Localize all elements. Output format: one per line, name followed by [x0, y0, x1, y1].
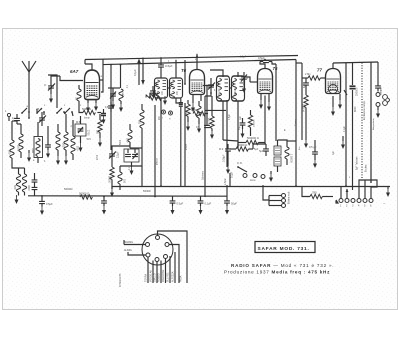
resistor R8 grid — [302, 73, 326, 80]
switch S1b — [36, 108, 45, 114]
trimmer C9 — [208, 78, 215, 94]
caption line 1 — [231, 263, 334, 268]
label w10 — [254, 148, 259, 151]
label w9 — [235, 88, 237, 95]
label w3 — [87, 138, 92, 141]
resistor R2 — [149, 96, 161, 100]
capacitor C23 el — [179, 98, 183, 186]
IF transformer T1a — [155, 78, 168, 98]
wire RC links — [223, 139, 287, 149]
resistor R7 50000 — [79, 192, 92, 200]
coil L1 — [8, 121, 15, 165]
capacitor C12 R2 — [219, 144, 231, 162]
svg-text:500000 Ω: 500000 Ω — [247, 136, 259, 140]
svg-text:300: 300 — [8, 150, 12, 155]
wire grid 6A7 — [51, 76, 83, 81]
svg-text:01018: 01018 — [235, 88, 237, 95]
svg-text:0,5μF: 0,5μF — [229, 113, 231, 120]
socket pin ll — [146, 253, 150, 257]
svg-text:150: 150 — [123, 179, 126, 184]
label w13 — [372, 118, 375, 130]
wire x362 dotted — [361, 63, 363, 182]
label w1 — [33, 160, 46, 163]
tube V1 6A7 — [85, 70, 100, 100]
svg-text:VERDE AV.: VERDE AV. — [150, 269, 153, 282]
coil L8 — [13, 168, 21, 196]
svg-text:0,25 M: 0,25 M — [302, 104, 305, 112]
label w18 — [143, 191, 151, 193]
wire bus drop x296 — [295, 60, 297, 187]
svg-text:8μF Tubolare: 8μF Tubolare — [356, 156, 359, 170]
svg-text:01003: 01003 — [219, 88, 221, 95]
svg-text:2 Mn: 2 Mn — [305, 73, 311, 76]
wire antenna to switches — [29, 109, 37, 112]
box M5 padder — [75, 121, 90, 136]
svg-text:75: 75 — [273, 66, 278, 71]
svg-text:0110: 0110 — [31, 148, 34, 154]
trimmer C22 — [108, 88, 120, 109]
label C.K. — [237, 161, 243, 165]
svg-text:R.2: R.2 — [219, 147, 224, 151]
svg-text:6A7: 6A7 — [70, 69, 79, 74]
wire mid links — [112, 146, 142, 186]
wire left mesh g — [19, 167, 25, 169]
junction dots bus2 — [41, 185, 347, 197]
ground L7 — [64, 156, 68, 165]
coil L7 — [71, 120, 80, 160]
svg-text:101818: 101818 — [254, 119, 256, 127]
svg-text:50000Ω: 50000Ω — [82, 108, 91, 111]
ground L8 — [15, 195, 19, 204]
wire interrutt — [123, 240, 125, 245]
label v1 — [101, 75, 103, 78]
svg-text:RADIO SAFAR — Mod « 731 e 732: RADIO SAFAR — Mod « 731 e 732 ». — [231, 263, 334, 268]
svg-text:0,55: 0,55 — [123, 92, 125, 97]
svg-text:500: 500 — [126, 138, 130, 143]
capacitor C16 — [198, 196, 212, 215]
wire 6A7 anode — [85, 60, 92, 71]
svg-text:2700: 2700 — [97, 154, 99, 160]
label v14 — [240, 115, 242, 120]
wire socket top — [158, 231, 188, 283]
svg-text:2700: 2700 — [87, 130, 90, 136]
svg-text:0,5μF: 0,5μF — [240, 56, 247, 59]
svg-text:0,05μF: 0,05μF — [223, 154, 226, 162]
svg-text:5μF: 5μF — [254, 148, 259, 151]
wire socket right — [169, 245, 179, 284]
svg-text:1μF: 1μF — [333, 150, 335, 155]
wire left mesh f — [64, 112, 73, 116]
terminal spk2 — [269, 199, 286, 203]
ground R4 — [110, 188, 114, 197]
wire 75 anode — [260, 62, 276, 69]
label tono — [250, 178, 256, 182]
label griglia — [185, 143, 188, 150]
svg-text:1K01: 1K01 — [17, 145, 21, 152]
wire T6 grid right — [203, 85, 214, 87]
svg-text:50000 Ω: 50000 Ω — [79, 192, 89, 196]
wire x185 drop — [184, 60, 186, 186]
terminal J1a — [376, 93, 380, 97]
trimmer screw A — [162, 110, 166, 120]
wire bottom bus left — [28, 195, 227, 197]
wire can B top — [175, 60, 177, 78]
wire 77 anode — [332, 63, 334, 69]
wire x223 drop — [222, 101, 224, 140]
coil L16 — [138, 104, 145, 147]
wire right bus — [333, 62, 378, 84]
svg-text:griglia: griglia — [185, 143, 188, 150]
coil L10 osc — [75, 85, 82, 105]
svg-text:0,5 μF: 0,5 μF — [309, 145, 317, 149]
svg-text:BLU REI.: BLU REI. — [167, 272, 170, 282]
lead T6 k1 — [191, 94, 195, 112]
ground left bank — [27, 150, 31, 162]
svg-text:77: 77 — [317, 68, 322, 73]
svg-text:5μF: 5μF — [259, 149, 264, 153]
svg-text:500000: 500000 — [143, 191, 151, 193]
label v6 — [214, 89, 216, 92]
svg-text:Bobina mob.: Bobina mob. — [289, 191, 291, 204]
label tub2 — [365, 164, 368, 172]
label 0,1uF mid — [231, 171, 234, 178]
trimmer C28 — [241, 72, 247, 93]
label v4 — [120, 139, 122, 145]
ground C12 — [226, 156, 230, 174]
wire T6 anode — [196, 54, 198, 70]
wire y110 — [205, 109, 226, 111]
capacitor C14 — [101, 196, 107, 215]
wire jack hook — [387, 98, 390, 103]
label 75 — [273, 66, 278, 71]
label interrutt — [119, 273, 122, 287]
label tub1 — [356, 156, 359, 170]
label v9 — [344, 125, 346, 132]
wire socket down5 — [162, 258, 165, 283]
coil L13 150 — [118, 166, 126, 190]
wire top bus 2 — [103, 60, 296, 65]
wire IF2 top — [210, 70, 238, 77]
svg-text:5000: 5000 — [120, 139, 122, 145]
svg-text:tono: tono — [250, 178, 256, 182]
capacitor C11 5uF — [259, 144, 269, 156]
svg-text:0,1μF: 0,1μF — [205, 202, 212, 206]
wire x346 drop — [345, 63, 347, 186]
wire 6A7 screen right — [100, 59, 104, 92]
capacitor C15 — [170, 196, 184, 215]
wire socket left2 — [124, 249, 146, 255]
label w14 — [349, 177, 351, 179]
wire x354 drop — [353, 63, 358, 190]
trimmer screw B — [169, 111, 173, 121]
wire socket down6 — [167, 256, 170, 283]
label 6A7 — [70, 69, 79, 74]
resistor R5 500000 — [238, 136, 265, 145]
wire AVC bus — [112, 187, 390, 190]
resistor R3 vert — [184, 100, 190, 122]
label w15 — [129, 166, 131, 170]
resistor R1 50000 — [79, 105, 101, 120]
terminal P3 — [351, 199, 355, 208]
svg-text:Altoparlante: Altoparlante — [372, 118, 375, 130]
wire left mesh b — [12, 121, 21, 124]
terminal spk3 — [269, 204, 286, 208]
coil L3 — [17, 124, 24, 158]
capacitor C6 0.5uF — [158, 58, 172, 75]
svg-text:MARRONE: MARRONE — [162, 269, 165, 282]
wire IF2 links — [205, 88, 232, 96]
capacitor C20 el — [350, 86, 359, 96]
terminal J2a — [376, 103, 380, 107]
label tilde — [383, 201, 386, 206]
svg-text:0,1μF: 0,1μF — [231, 171, 234, 178]
svg-text:SAFAR MOD. 731.: SAFAR MOD. 731. — [258, 246, 310, 252]
IF transformer T2b — [232, 76, 245, 101]
svg-text:C.K.: C.K. — [237, 161, 243, 165]
svg-text:250000: 250000 — [356, 87, 359, 96]
capacitor C17 50uF — [224, 187, 237, 215]
svg-text:Vite 10Λ: Vite 10Λ — [208, 117, 211, 126]
svg-text:Eccitazione campo: Eccitazione campo — [363, 100, 366, 120]
svg-text:501: 501 — [62, 143, 66, 148]
wire socket down1 — [145, 257, 148, 283]
wire left mesh a — [12, 165, 19, 168]
tube V4 77 — [326, 69, 341, 94]
wire left mesh c — [28, 112, 30, 119]
lead 75 k2 — [267, 93, 271, 111]
wire IF1 links — [161, 88, 183, 105]
wire x212 drop — [211, 96, 213, 110]
terminal P6 — [369, 199, 373, 208]
wire x161 drop — [160, 105, 162, 186]
socket pin ur — [165, 243, 169, 247]
coil L4 boxed — [31, 122, 43, 163]
capacitor C-ant — [12, 114, 20, 124]
capacitor C10 top — [258, 56, 272, 63]
IF transformer T2a — [217, 76, 230, 101]
svg-text:4μF: 4μF — [304, 83, 306, 88]
label bobina — [289, 191, 291, 204]
capacitor C25 — [239, 118, 246, 138]
label w17 — [64, 188, 73, 191]
lead 77 k — [331, 96, 335, 116]
svg-text:0000: 0000 — [27, 185, 30, 191]
label w2 — [57, 126, 73, 128]
svg-text:0 5μF: 0 5μF — [177, 202, 184, 206]
terminal spk1 — [269, 194, 286, 198]
svg-text:Campo: Campo — [295, 118, 297, 126]
capacitor C19 0.5uF — [309, 140, 318, 168]
label w11 — [284, 130, 286, 132]
lead 75 k1 — [259, 93, 263, 109]
label v8 — [295, 118, 301, 150]
resistor R9 0.25M — [302, 90, 309, 113]
switch CK — [237, 166, 247, 172]
capacitor C 0.1uF arrow — [133, 58, 145, 85]
wire socket down8 — [180, 275, 183, 282]
svg-text:0 5μF: 0 5μF — [46, 202, 53, 206]
label campo vert — [363, 100, 366, 120]
socket pin lr — [164, 255, 168, 259]
wire socket left1 — [124, 241, 146, 245]
resistor R4 50000 — [108, 162, 115, 189]
svg-text:ALTEZZA: ALTEZZA — [172, 271, 175, 282]
trimmer V — [44, 80, 55, 103]
label v3 — [27, 105, 29, 108]
coil L15 — [119, 89, 125, 112]
lead T6 k2 — [200, 94, 202, 101]
coil L14 choke — [285, 141, 293, 165]
ground T6 bias — [186, 122, 201, 133]
capacitor C5 — [32, 173, 38, 196]
resistor R15 — [248, 110, 255, 136]
label w8 — [219, 88, 221, 95]
ground L5 — [56, 156, 60, 165]
wire left mesh d — [44, 112, 48, 140]
label v11 — [240, 56, 247, 59]
lead 6A7 k2 — [94, 100, 98, 111]
trimmer C8 — [109, 150, 120, 162]
wire x238 drop — [237, 101, 239, 147]
coil L5 — [56, 124, 60, 156]
terminal tono 3 — [261, 175, 265, 179]
svg-text:INTERRUTT.: INTERRUTT. — [119, 273, 122, 287]
svg-text:8000: 8000 — [354, 106, 357, 112]
svg-text:50000Ω: 50000Ω — [64, 188, 73, 191]
wire left mesh e — [48, 75, 57, 108]
label v7 — [247, 77, 249, 80]
terminal tono 2 — [253, 174, 257, 178]
label a.5mn — [224, 178, 227, 185]
ground tono — [269, 171, 273, 182]
svg-text:T6: T6 — [181, 68, 187, 73]
ground x343 — [341, 136, 345, 149]
wire top B+ bus — [85, 56, 298, 60]
wire x120 drop — [120, 65, 122, 88]
switch S1a — [21, 108, 30, 114]
lead 77 g — [338, 90, 347, 109]
resistor R13 0250 — [191, 109, 208, 116]
svg-text:0,1μF: 0,1μF — [344, 125, 346, 132]
capacitor C13 bottom — [39, 196, 53, 215]
tube V3 75 — [258, 69, 273, 94]
resistor R10 780 — [302, 187, 333, 199]
label w6 — [177, 90, 179, 95]
coil L9 — [22, 168, 30, 196]
terminal P2 — [345, 199, 349, 208]
wire spk feed — [263, 186, 269, 206]
capacitor C18 grid — [303, 78, 309, 90]
svg-text:50μF: 50μF — [231, 202, 237, 206]
svg-text:Ecc.: Ecc. — [299, 145, 301, 150]
wire 75 anode down — [265, 64, 296, 141]
wire T6 grid top — [160, 75, 162, 78]
capacitor C7 — [150, 86, 156, 97]
svg-text:0.5: 0.5 — [196, 126, 200, 129]
wire socket down7 — [172, 252, 175, 283]
svg-text:ROSSO: ROSSO — [158, 273, 161, 282]
wire socket down2 — [150, 261, 153, 284]
wire ck drop — [227, 100, 230, 186]
capacitor C4 — [45, 140, 51, 158]
svg-text:W.5: W.5 — [87, 138, 92, 141]
capacitor C21 jack — [375, 84, 382, 95]
svg-text:1μF: 1μF — [240, 115, 242, 120]
label w16 — [97, 154, 99, 160]
label 77 — [317, 68, 322, 73]
label T6 — [181, 68, 187, 73]
svg-text:TERRA: TERRA — [145, 273, 148, 282]
wire x306 drop — [304, 113, 308, 148]
resistor R14 — [208, 110, 215, 139]
svg-text:0,250: 0,250 — [191, 109, 198, 112]
svg-text:2,1μF: 2,1μF — [117, 151, 120, 158]
terminal P4 — [357, 199, 361, 208]
trimmer 25m — [35, 107, 46, 126]
wire socket down3 — [154, 261, 157, 283]
switch S1c — [56, 108, 65, 114]
wire strip left — [336, 186, 348, 203]
svg-text:booty: booty — [84, 117, 90, 120]
coil L12 500ohm — [126, 124, 133, 148]
label v12 — [159, 115, 161, 120]
wire strip loops — [359, 180, 377, 198]
ground jack — [376, 107, 380, 118]
svg-text:0-5μF: 0-5μF — [165, 64, 173, 68]
socket pin ul — [146, 243, 150, 247]
wire padder — [79, 116, 83, 152]
label w5 — [168, 61, 170, 63]
capacitor C27 — [105, 102, 114, 112]
svg-text:AMANIG: AMANIG — [124, 241, 133, 244]
junction dots bus — [110, 55, 266, 65]
coil L11 — [197, 101, 205, 124]
box tone filter — [124, 149, 139, 175]
wire bus drop x302 — [296, 63, 302, 140]
terminal antenna — [5, 110, 11, 121]
label v2 — [44, 104, 82, 107]
svg-text:PIGIA: PIGIA — [180, 275, 183, 282]
label v5 — [151, 92, 153, 96]
ground IF1 — [163, 96, 167, 105]
svg-text:780: 780 — [312, 191, 317, 195]
wire socket down4 — [158, 261, 161, 284]
capacitor C24 05 — [196, 86, 210, 129]
socket circle — [142, 234, 173, 265]
label v13 — [229, 113, 231, 120]
wire x205 drop — [201, 96, 205, 197]
svg-text:100: 100 — [76, 146, 80, 151]
tube V2 T6 — [190, 70, 205, 95]
svg-text:50000: 50000 — [108, 176, 111, 184]
svg-text:0,5μF: 0,5μF — [258, 56, 265, 60]
svg-text:1 50000: 1 50000 — [290, 154, 293, 163]
terminal J2b — [383, 101, 388, 106]
label v10 — [195, 59, 197, 61]
label v15 — [304, 83, 306, 88]
label w7 — [162, 90, 164, 95]
resistor R6 30000 — [230, 143, 253, 151]
svg-text:V.: V. — [44, 83, 47, 87]
wire x111 long — [110, 65, 112, 150]
terminal P1 — [339, 199, 343, 208]
label x155 — [157, 158, 159, 165]
socket pin bottom — [155, 258, 159, 262]
svg-text:25 m: 25 m — [35, 107, 43, 111]
caption line 2 — [224, 270, 330, 275]
svg-text:GIALLO: GIALLO — [154, 273, 157, 282]
wire x371 drop — [370, 63, 372, 184]
